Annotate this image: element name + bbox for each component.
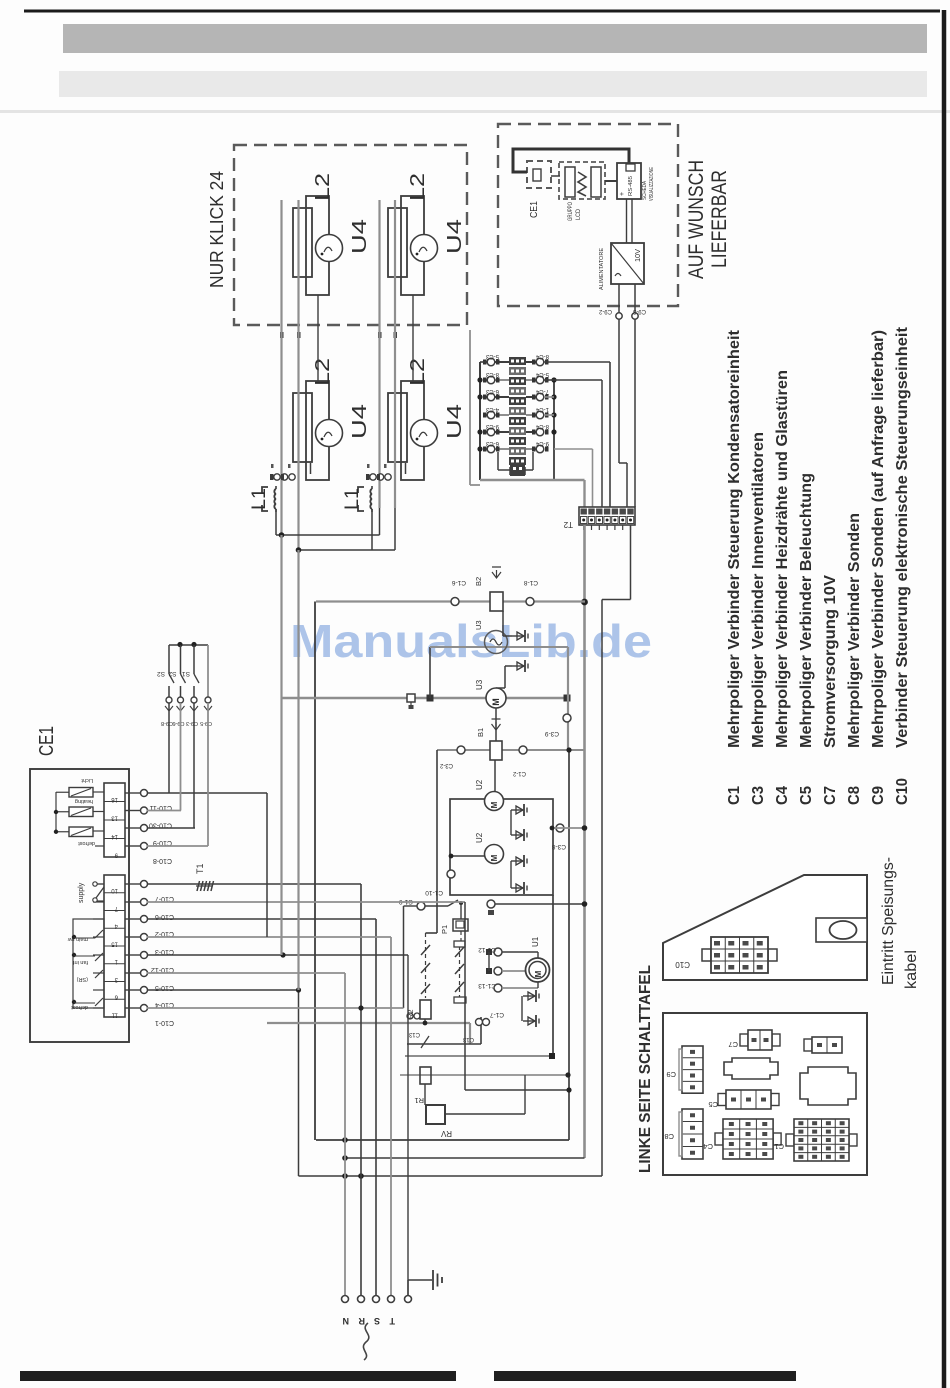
svg-text:C10-3: C10-3 (155, 948, 174, 955)
svg-text:R1: R1 (414, 1096, 424, 1105)
svg-text:C9: C9 (666, 1070, 676, 1079)
svg-text:C1: C1 (774, 1142, 784, 1151)
svg-text:Mehrpoliger Verbinder Sonden (: Mehrpoliger Verbinder Sonden (auf Anfrag… (870, 330, 887, 748)
svg-text:supply: supply (78, 882, 85, 903)
svg-text:AUF WUNSCH: AUF WUNSCH (685, 160, 708, 279)
svg-text:C9-3: C9-3 (186, 720, 198, 726)
svg-text:C13: C13 (408, 1031, 420, 1037)
svg-text:S: S (374, 1316, 380, 1326)
svg-text:B1: B1 (476, 728, 485, 737)
svg-text:U1: U1 (531, 936, 540, 947)
svg-text:C10-2: C10-2 (155, 930, 174, 937)
svg-text:+: + (619, 192, 626, 196)
svg-text:C10-9: C10-9 (153, 839, 172, 846)
svg-text:8-C4: 8-C4 (535, 353, 549, 359)
svg-text:Mehrpoliger Verbinder Steuerun: Mehrpoliger Verbinder Steuerung Kondensa… (726, 330, 743, 748)
svg-text:14: 14 (111, 833, 118, 839)
svg-text:GRUPPO: GRUPPO (568, 202, 574, 221)
svg-text:8-C3: 8-C3 (485, 371, 499, 377)
svg-text:(SR): (SR) (77, 976, 88, 982)
svg-text:Mehrpoliger Verbinder Innenven: Mehrpoliger Verbinder Innenventilatoren (750, 432, 767, 748)
svg-text:kabel: kabel (903, 950, 920, 989)
svg-text:C9: C9 (870, 786, 887, 805)
svg-text:L1: L1 (342, 488, 363, 510)
svg-text:C8: C8 (664, 1132, 674, 1141)
svg-text:L2: L2 (312, 358, 334, 386)
svg-text:LINKE SEITE SCHALTTAFEL: LINKE SEITE SCHALTTAFEL (637, 965, 654, 1173)
svg-text:C1-6: C1-6 (452, 579, 466, 586)
svg-text:CE1: CE1 (36, 726, 58, 756)
svg-text:LIEFERBAR: LIEFERBAR (708, 170, 731, 268)
svg-text:C10-8: C10-8 (153, 857, 172, 864)
svg-text:M: M (534, 970, 543, 977)
svg-text:Mehrpoliger Verbinder Heizdräh: Mehrpoliger Verbinder Heizdrähte und Gla… (774, 370, 791, 748)
svg-text:C10: C10 (675, 960, 690, 969)
svg-text:M: M (491, 698, 501, 706)
svg-text:C1: C1 (726, 786, 743, 805)
svg-text:NUR KLICK 24: NUR KLICK 24 (207, 171, 227, 288)
svg-text:U4: U4 (444, 404, 466, 439)
svg-text:6-C3: 6-C3 (485, 388, 499, 394)
svg-text:16: 16 (111, 796, 118, 802)
svg-text:L2: L2 (407, 358, 429, 386)
svg-text:C7: C7 (822, 786, 839, 805)
svg-text:13: 13 (111, 815, 118, 821)
svg-text:Stromversorgung 10V: Stromversorgung 10V (822, 574, 839, 748)
svg-text:Eintritt Speisungs-: Eintritt Speisungs- (880, 857, 897, 985)
svg-text:LCD: LCD (576, 208, 582, 220)
svg-text:ALIMENTATORE: ALIMENTATORE (599, 248, 605, 290)
svg-text:S2: S2 (157, 670, 165, 677)
svg-text:M: M (490, 854, 499, 861)
svg-text:SCHEDA: SCHEDA (642, 181, 648, 200)
svg-text:C4: C4 (774, 786, 791, 805)
svg-text:R: R (358, 1316, 365, 1326)
svg-text:L2: L2 (312, 173, 334, 201)
svg-text:heating: heating (75, 798, 93, 804)
svg-text:VISUALIZZAZIONE: VISUALIZZAZIONE (649, 167, 655, 201)
svg-text:9-C4: 9-C4 (535, 440, 549, 446)
svg-text:U4: U4 (444, 219, 466, 254)
svg-text:U3: U3 (475, 679, 484, 690)
svg-text:S1: S1 (182, 670, 190, 677)
svg-text:Licht: Licht (81, 777, 93, 783)
svg-text:C5: C5 (708, 1100, 718, 1109)
svg-text:N: N (343, 1316, 350, 1326)
svg-text:U4: U4 (349, 219, 371, 254)
svg-text:Mehrpoliger Verbinder Sonden: Mehrpoliger Verbinder Sonden (846, 513, 863, 748)
svg-text:C3-9: C3-9 (545, 730, 559, 737)
svg-text:M: M (490, 801, 499, 808)
svg-text:4-C3: 4-C3 (485, 406, 499, 412)
svg-text:C9-6: C9-6 (173, 720, 185, 726)
svg-text:C10-1: C10-1 (155, 1019, 174, 1026)
svg-text:10: 10 (111, 887, 118, 893)
svg-text:C8: C8 (846, 786, 863, 805)
svg-text:Mehrpoliger Verbinder Beleucht: Mehrpoliger Verbinder Beleuchtung (798, 473, 815, 748)
svg-text:8-C4: 8-C4 (535, 423, 549, 429)
svg-text:15: 15 (111, 940, 118, 946)
svg-text:5-C4: 5-C4 (535, 371, 549, 377)
svg-text:P1: P1 (440, 925, 449, 934)
svg-text:C1-8: C1-8 (524, 579, 538, 586)
svg-text:C10: C10 (894, 778, 911, 805)
svg-text:C4: C4 (703, 1142, 713, 1151)
svg-text:U2: U2 (475, 832, 484, 843)
svg-text:10V: 10V (635, 249, 642, 262)
svg-text:C9-8: C9-8 (161, 720, 173, 726)
svg-text:C7: C7 (728, 1040, 738, 1049)
svg-text:C9-3: C9-3 (632, 308, 646, 314)
svg-text:6-C3: 6-C3 (485, 440, 499, 446)
svg-text:11: 11 (111, 1011, 118, 1017)
svg-text:main sw: main sw (68, 936, 88, 942)
svg-text:1-C4: 1-C4 (535, 406, 549, 412)
svg-text:U2: U2 (475, 779, 484, 790)
svg-text:RV: RV (440, 1129, 452, 1138)
svg-text:C1-7: C1-7 (490, 1011, 504, 1018)
svg-text:fan int: fan int (73, 959, 88, 965)
svg-text:ManualsLib.de: ManualsLib.de (290, 615, 652, 667)
svg-text:U4: U4 (349, 404, 371, 439)
svg-text:T2: T2 (563, 520, 573, 529)
svg-text:T1: T1 (195, 863, 205, 874)
svg-text:C9-2: C9-2 (598, 308, 612, 314)
svg-text:C13: C13 (462, 1036, 474, 1042)
svg-text:T: T (389, 1316, 395, 1326)
svg-text:C3: C3 (750, 786, 767, 805)
svg-text:C10-7: C10-7 (155, 895, 174, 902)
svg-text:C9-5: C9-5 (200, 720, 212, 726)
svg-text:7-C4: 7-C4 (535, 388, 549, 394)
svg-text:C1-2: C1-2 (512, 770, 526, 776)
svg-text:L2: L2 (407, 173, 429, 201)
svg-text:defrost: defrost (78, 840, 95, 846)
svg-text:C10-4: C10-4 (155, 1001, 174, 1008)
svg-text:C5: C5 (798, 786, 815, 805)
svg-text:B2: B2 (474, 577, 483, 586)
svg-text:L1: L1 (249, 488, 270, 510)
svg-text:CE1: CE1 (529, 201, 540, 218)
svg-text:5-C3: 5-C3 (485, 353, 499, 359)
svg-text:C1-10: C1-10 (425, 889, 443, 896)
svg-text:U3: U3 (474, 620, 483, 630)
svg-text:Verbinder Steuerung elektronis: Verbinder Steuerung elektronische Steuer… (894, 327, 911, 748)
svg-text:S2: S2 (168, 670, 176, 677)
svg-text:defrost: defrost (71, 1004, 88, 1010)
svg-text:C3-8: C3-8 (552, 843, 566, 850)
svg-text:RS-485: RS-485 (628, 176, 634, 196)
svg-text:C10-12: C10-12 (151, 966, 174, 973)
svg-text:9-C3: 9-C3 (485, 423, 499, 429)
svg-text:C3-2: C3-2 (439, 762, 453, 768)
